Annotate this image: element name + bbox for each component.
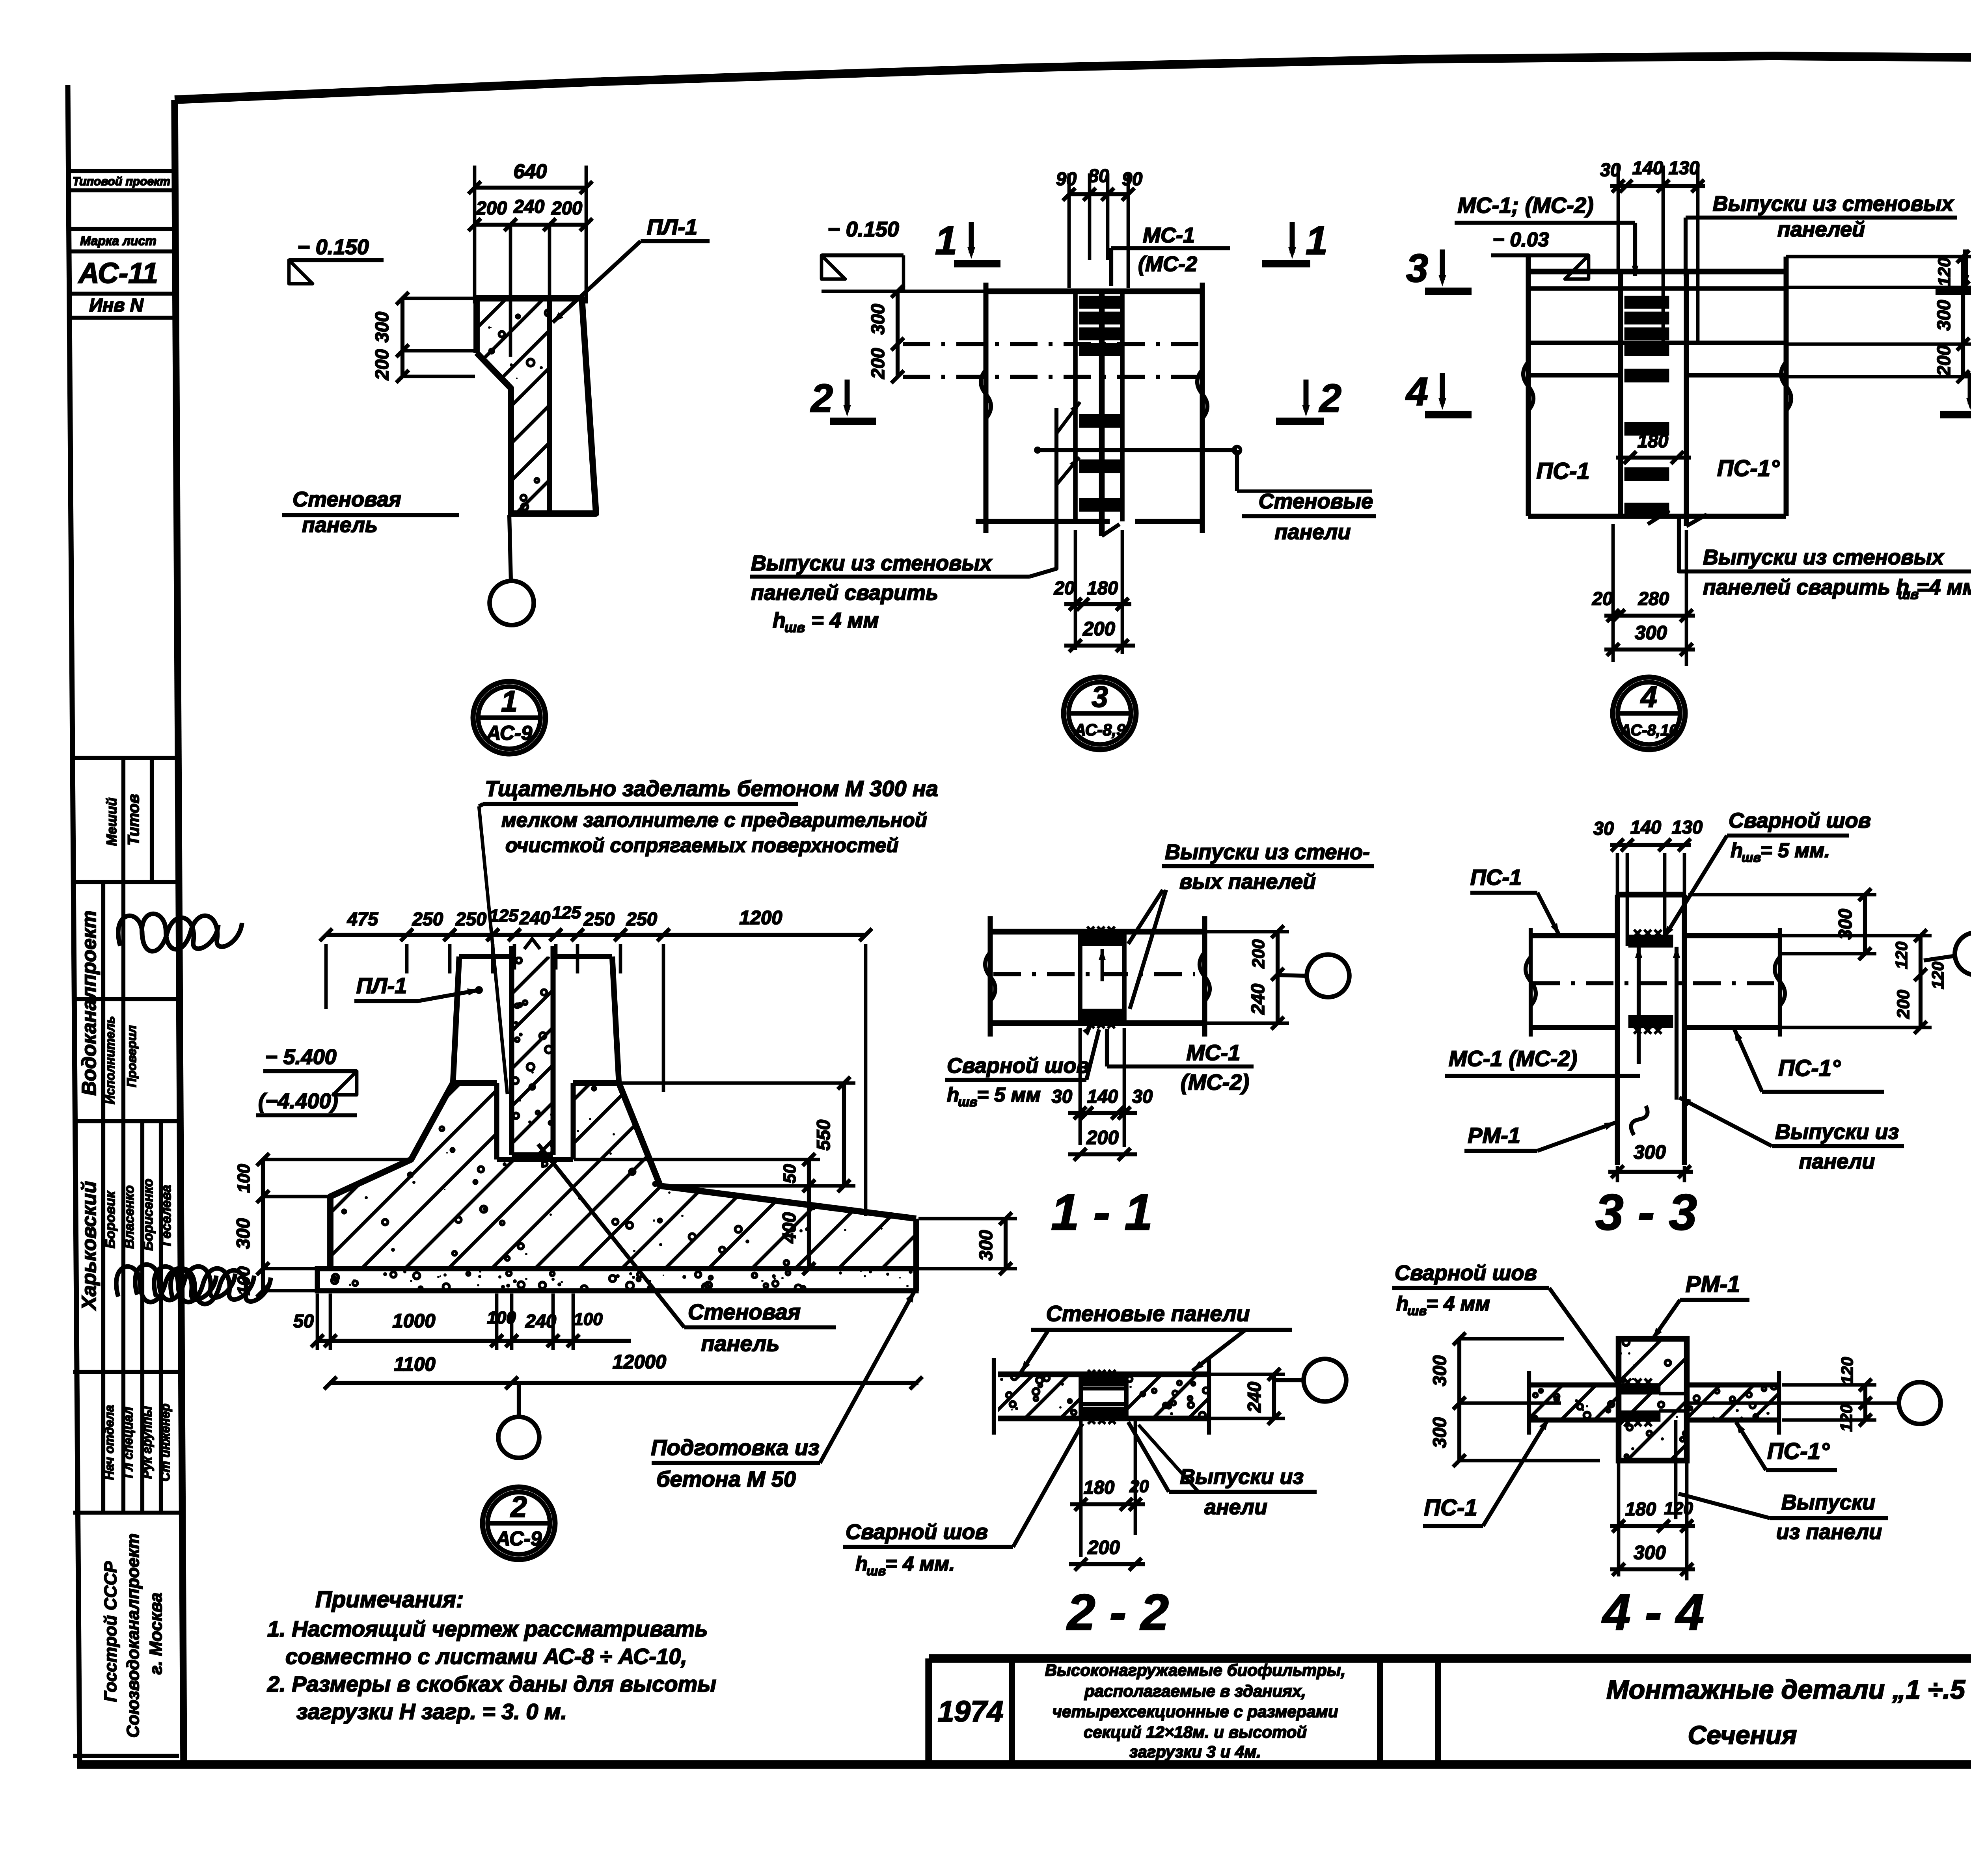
svg-text:Харьковский: Харьковский (78, 1181, 100, 1311)
svg-text:секций 12×18м. и высотой: секций 12×18м. и высотой (1084, 1723, 1307, 1741)
svg-text:Борисенко: Борисенко (141, 1179, 156, 1251)
svg-text:АС-9: АС-9 (495, 1527, 542, 1550)
section 4-4: column RM-1 (1619, 1339, 1687, 1461)
section 3-3: dim 300 bottom (1608, 1142, 1693, 1182)
section 3-3: dashed axis (1532, 981, 1778, 985)
svg-text:Меший: Меший (104, 798, 119, 846)
svg-text:h: h (947, 1083, 959, 1106)
svg-text:Марка лист: Марка лист (80, 234, 156, 248)
section 1-1: label Svarnoy shov (945, 1025, 1099, 1109)
detail 1: label PL-1 (553, 214, 710, 322)
svg-text:Сварной шов: Сварной шов (947, 1054, 1089, 1078)
svg-text:= 4 мм: = 4 мм (1426, 1292, 1490, 1315)
section 4-4: node circle (1899, 1382, 1941, 1424)
svg-text:4 - 4: 4 - 4 (1601, 1584, 1704, 1641)
detail 4: dim 180 (1616, 430, 1691, 464)
svg-text:200: 200 (371, 349, 392, 380)
svg-text:250: 250 (455, 908, 486, 929)
svg-text:130: 130 (1669, 157, 1699, 178)
svg-text:ПС-1°: ПС-1° (1767, 1439, 1830, 1464)
svg-text:Рук группы: Рук группы (140, 1406, 154, 1479)
section 3-3: dim 300 right (1688, 888, 1876, 960)
svg-text:шв: шв (1407, 1303, 1427, 1318)
svg-text:(МС-2): (МС-2) (1181, 1070, 1249, 1094)
svg-text:анели: анели (1204, 1495, 1267, 1519)
sheet outer sidebar line (68, 85, 80, 1764)
svg-text:Сечения: Сечения (1688, 1720, 1797, 1749)
svg-text:200: 200 (1894, 990, 1913, 1019)
section 4-4: label Vypuski iz paneli (1676, 1420, 1888, 1544)
title block frame (929, 1658, 1971, 1764)
svg-text:2: 2 (810, 376, 833, 421)
svg-text:30: 30 (1132, 1086, 1153, 1107)
section 3-3: left wall (1526, 928, 1617, 1037)
section 3-3: dims 120 120 200 right (1782, 929, 1947, 1034)
foundation: dims 100 300 100 left (233, 1153, 410, 1297)
foundation: pocket walls (497, 1083, 573, 1159)
svg-text:Типовой проект: Типовой проект (73, 175, 170, 188)
svg-text:30: 30 (1593, 818, 1614, 839)
detail 1: node circle (490, 581, 534, 625)
section 2-2: joint with plates (1081, 1370, 1126, 1424)
section 4-4: title (1601, 1584, 1704, 1641)
svg-text:ПС-1°: ПС-1° (1717, 456, 1780, 481)
svg-text:h: h (1731, 839, 1743, 862)
svg-text:200: 200 (867, 348, 888, 379)
svg-text:= 5 мм.: = 5 мм. (1760, 839, 1830, 862)
svg-text:Водоканалпроект: Водоканалпроект (78, 910, 100, 1096)
foundation: body outline (330, 1083, 916, 1291)
svg-text:180: 180 (1084, 1477, 1114, 1498)
svg-text:Проверил: Проверил (125, 1025, 139, 1087)
section 3-3: label RM-1 (1464, 1122, 1616, 1151)
svg-text:ПС-1: ПС-1 (1536, 458, 1589, 484)
svg-text:200: 200 (1933, 345, 1954, 376)
rotated text Soyuzvodokanalproekt (123, 1534, 143, 1738)
foundation: dim 550 (620, 1077, 855, 1192)
svg-text:120: 120 (1892, 942, 1911, 969)
detail 4: section mark 4 right (1940, 370, 1971, 415)
foundation: label Stenovaya panel (538, 1144, 836, 1356)
detail 3: wall panels outline (976, 283, 1207, 533)
svg-text:шв: шв (866, 1563, 886, 1578)
svg-text:шв: шв (784, 620, 805, 635)
svg-text:совместно с листами АС-8 ÷: совместно с листами АС-8 ÷ АС-10, (285, 1644, 687, 1669)
svg-text:(−4.400): (−4.400) (258, 1089, 338, 1113)
section 2-2: label Vypuski iz paneli (1128, 1422, 1317, 1519)
detail 3: dashed axis lines (903, 344, 1202, 377)
svg-text:4: 4 (1405, 370, 1428, 414)
detail 1: panel concrete hatch (469, 298, 552, 514)
svg-text:панель: панель (701, 1331, 779, 1356)
svg-text:120: 120 (1928, 962, 1947, 989)
section 2-2: dim 200 (1069, 1537, 1145, 1571)
svg-text:300: 300 (975, 1230, 996, 1261)
section 1-1: node circle (1278, 955, 1349, 997)
detail 3: dims 90 80 90 (1056, 165, 1142, 288)
svg-text:120: 120 (1664, 1499, 1693, 1518)
title name Montazhnye detali (1606, 1675, 1965, 1749)
svg-text:240: 240 (519, 907, 550, 928)
section 3-3: label PS-1a (1734, 1029, 1884, 1092)
detail 3: section mark 1 right (1262, 219, 1328, 264)
section 2-2: node circle (1274, 1359, 1346, 1401)
detail 3: section mark 1 left (935, 219, 1000, 264)
svg-text:300: 300 (1634, 1542, 1666, 1563)
rotated name Borisenko (141, 1179, 156, 1251)
svg-text:2. Размеры в скобках даны: 2. Размеры в скобках даны для высоты (267, 1671, 716, 1696)
section 4-4: dim 300 (1610, 1542, 1695, 1576)
section 3-3: label MS-1 (MS-2) (1445, 1046, 1640, 1076)
detail 4: detail number circle 4/AS-8,10 (1613, 677, 1685, 750)
svg-text:300: 300 (1933, 300, 1954, 331)
svg-text:загрузки 3 и 4м.: загрузки 3 и 4м. (1129, 1742, 1261, 1761)
detail 4: label PS-1a (1717, 456, 1780, 481)
svg-text:Сварной шов: Сварной шов (846, 1520, 988, 1544)
section 3-3: dims 30 140 130 (1593, 817, 1703, 946)
section 2-2: title (1066, 1584, 1169, 1641)
svg-text:200: 200 (1086, 1127, 1119, 1148)
detail 4: note Vypuski iz stenovykh paneley svarit (1648, 510, 1971, 602)
rotated label Nach otdela (102, 1405, 116, 1480)
label Tipovoy proekt (73, 175, 170, 188)
svg-text:240: 240 (1247, 984, 1268, 1015)
foundation: label Podgotovka iz betona M50 (651, 1291, 915, 1491)
svg-text:Подготовка из: Подготовка из (651, 1435, 819, 1460)
svg-text:загрузки Н загр. = 3. 0 м.: загрузки Н загр. = 3. 0 м. (296, 1699, 567, 1724)
detail 4: label PS-1 (1536, 458, 1589, 484)
svg-text:120: 120 (1838, 1357, 1856, 1385)
svg-text:180: 180 (1625, 1498, 1656, 1519)
svg-text:МС-1; (МС-2): МС-1; (МС-2) (1457, 193, 1593, 218)
svg-text:− 0.03: − 0.03 (1492, 228, 1549, 251)
svg-text:125: 125 (552, 903, 581, 922)
svg-text:300: 300 (233, 1218, 253, 1249)
svg-text:h: h (1396, 1292, 1408, 1315)
svg-text:200: 200 (551, 197, 582, 218)
notes: item 1 (267, 1616, 708, 1669)
svg-text:Сварной шов: Сварной шов (1729, 809, 1871, 832)
svg-text:180: 180 (1087, 577, 1118, 598)
svg-text:= 5 мм: = 5 мм (977, 1083, 1041, 1106)
title year 1974 (938, 1695, 1004, 1728)
foundation: top dimension row (320, 903, 872, 1216)
svg-text:Сварной шов: Сварной шов (1395, 1261, 1537, 1285)
svg-text:180: 180 (1638, 430, 1668, 451)
section 1-1: title (1051, 1184, 1153, 1241)
svg-text:Гл специал: Гл специал (121, 1407, 135, 1478)
detail 3: label MS-1 (MS-2 (1111, 223, 1230, 286)
section 2-2: label Svarnoy shov (843, 1424, 1082, 1578)
svg-text:h: h (855, 1552, 868, 1575)
detail 3: label Stenovye paneli (1034, 447, 1376, 544)
section 4-4: label RM-1 (1652, 1271, 1749, 1339)
svg-text:РМ-1: РМ-1 (1686, 1271, 1740, 1297)
frame bottom border (77, 1760, 1971, 1769)
detail 4: section mark 3 left (1406, 246, 1472, 291)
svg-text:250: 250 (583, 908, 615, 929)
foundation: bottom dim row 50 1000 100 240 100 (293, 1293, 631, 1350)
svg-text:h: h (773, 609, 786, 632)
section 3-3: label Svarnoy shov hshv=5mm (1664, 809, 1871, 937)
svg-text:3: 3 (1406, 246, 1428, 290)
foundation: label PL-1 (354, 973, 483, 1001)
svg-text:= 4 мм.: = 4 мм. (885, 1552, 955, 1575)
section 2-2: wall hatch left (954, 1374, 1105, 1418)
svg-text:100: 100 (574, 1310, 603, 1329)
svg-text:475: 475 (347, 908, 378, 929)
section 1-1: dim 200 (1068, 1127, 1137, 1161)
title description (1045, 1661, 1346, 1761)
svg-text:АС-11: АС-11 (78, 257, 158, 289)
svg-text:мелком заполнителе с предва: мелком заполнителе с предварительной (501, 809, 927, 831)
section 3-3: label PS-1 top (1470, 865, 1559, 935)
detail 3: section mark 2 right (1276, 376, 1341, 421)
section 3-3: node circle (1924, 932, 1971, 975)
svg-text:640: 640 (513, 160, 547, 182)
svg-text:ПС-1: ПС-1 (1424, 1495, 1477, 1521)
rotated label Ruk gruppy (140, 1406, 154, 1479)
frame left border (175, 100, 184, 1764)
svg-text:Выпуски из стеновых: Выпуски из стеновых (1713, 192, 1954, 216)
svg-text:1: 1 (935, 219, 957, 263)
svg-text:Стеновые: Стеновые (1259, 489, 1373, 513)
detail 3: section mark 2 left (810, 376, 876, 421)
svg-text:90: 90 (1122, 168, 1142, 189)
svg-text:200: 200 (1087, 1537, 1120, 1558)
rotated name Vlasenko (122, 1186, 137, 1249)
svg-text:Выпуски из: Выпуски из (1775, 1120, 1899, 1144)
svg-text:=4 мм: =4 мм (1917, 575, 1971, 599)
svg-text:= 4 мм: = 4 мм (811, 609, 879, 632)
svg-text:280: 280 (1638, 588, 1669, 609)
section 3-3: weld plates and bars (1630, 930, 1680, 1100)
svg-text:Примечания:: Примечания: (315, 1587, 464, 1612)
svg-text:300: 300 (1635, 622, 1667, 644)
svg-text:Власенко: Власенко (122, 1186, 137, 1249)
svg-text:50: 50 (293, 1310, 314, 1331)
svg-text:Боровик: Боровик (103, 1191, 118, 1249)
svg-text:панели: панели (1275, 520, 1351, 544)
section 2-2: wall band outline (994, 1358, 1209, 1435)
svg-text:12000: 12000 (613, 1351, 666, 1373)
svg-text:2: 2 (510, 1490, 527, 1523)
detail 1: dimension 640 (468, 160, 592, 303)
notes: Primechaniya (315, 1587, 464, 1612)
svg-text:90: 90 (1056, 168, 1077, 189)
svg-text:250: 250 (412, 908, 443, 929)
svg-text:1: 1 (501, 685, 518, 718)
svg-text:МС-1 (МС-2): МС-1 (МС-2) (1449, 1046, 1578, 1071)
svg-text:МС-1: МС-1 (1187, 1040, 1241, 1065)
svg-text:(МС-2: (МС-2 (1138, 252, 1197, 276)
detail 1: detail number circle 1/AS-9 (473, 681, 546, 754)
detail 1: label Stenovaya panel (282, 488, 459, 537)
svg-text:120: 120 (1935, 257, 1954, 287)
signatures executors (108, 872, 248, 988)
detail 4: section mark 4 left (1405, 370, 1472, 415)
svg-text:1000: 1000 (392, 1310, 435, 1332)
notes: item 2 (267, 1671, 716, 1724)
signatures names (106, 1223, 276, 1341)
svg-text:РМ-1: РМ-1 (1468, 1123, 1520, 1148)
svg-text:240: 240 (513, 196, 544, 217)
svg-text:4: 4 (1640, 680, 1657, 713)
label Marka list (80, 234, 156, 248)
svg-text:200: 200 (1249, 939, 1268, 969)
detail 4: level mark -0.03 (1491, 228, 1589, 279)
svg-text:шв: шв (1898, 587, 1919, 602)
svg-text:панели: панели (1799, 1150, 1875, 1173)
section 1-1: dims 30 140 30 (1052, 1028, 1153, 1147)
section 4-4: label PS-1a (1736, 1422, 1837, 1470)
rotated text g Moskva (146, 1593, 166, 1675)
rotated text Ispolnitel (103, 1016, 117, 1104)
svg-text:Союзводоканалпроект: Союзводоканалпроект (123, 1534, 143, 1738)
section 4-4: dims 180 120 (1610, 1462, 1695, 1580)
svg-text:располагаемые в зданиях,: располагаемые в зданиях, (1084, 1682, 1306, 1700)
foundation: PL-1 panel outline (453, 957, 619, 1083)
svg-text:ПЛ-1: ПЛ-1 (647, 214, 698, 239)
rotated name Borovik (103, 1191, 118, 1249)
svg-text:20: 20 (1054, 577, 1075, 598)
svg-text:200: 200 (1082, 618, 1115, 640)
section 1-1: dims 200 240 right (1206, 925, 1289, 1029)
svg-text:1: 1 (1306, 219, 1328, 263)
svg-text:300: 300 (1634, 1142, 1666, 1163)
detail 4: joint column (1621, 272, 1707, 526)
svg-text:г. Москва: г. Москва (146, 1593, 166, 1675)
svg-text:Высоконагружаемые биофильтры,: Высоконагружаемые биофильтры, (1045, 1661, 1346, 1679)
svg-text:20: 20 (1129, 1477, 1149, 1496)
svg-text:250: 250 (626, 908, 657, 929)
svg-text:3: 3 (1092, 680, 1108, 713)
section 4-4: left wall (1529, 1371, 1619, 1435)
section 2-2: wall hatch right (1082, 1374, 1233, 1418)
svg-text:Выпуски из стеновых: Выпуски из стеновых (751, 551, 993, 575)
foundation: prep slab (317, 1269, 916, 1292)
section 1-1: label Vypuski iz stenovykh paneley (1128, 840, 1374, 1009)
section 4-4: label PS-1 (1423, 1419, 1548, 1526)
svg-text:− 0.150: − 0.150 (297, 235, 369, 259)
svg-text:300: 300 (867, 304, 888, 335)
detail 3: note Vypuski iz stenovykh paneley svarit (750, 402, 1080, 635)
foundation: note M300 text (479, 776, 938, 1094)
svg-text:шв: шв (958, 1094, 977, 1109)
svg-text:Госстрой СССР: Госстрой СССР (101, 1561, 120, 1702)
svg-text:ПС-1: ПС-1 (1470, 865, 1522, 890)
foundation: detail number circle 2/AS-9 (483, 1487, 555, 1560)
svg-text:Инв N: Инв N (89, 294, 144, 315)
svg-text:20: 20 (1592, 588, 1613, 609)
section 3-3: title (1595, 1184, 1697, 1241)
svg-text:2: 2 (1319, 376, 1341, 421)
rotated text Vodokanalproekt (78, 910, 100, 1096)
svg-text:Тщательно заделать бетоном: Тщательно заделать бетоном М 300 на (485, 776, 938, 801)
svg-text:Нач отдела: Нач отдела (102, 1405, 116, 1480)
svg-text:240: 240 (1244, 1382, 1265, 1413)
svg-text:Стеновые панели: Стеновые панели (1046, 1301, 1250, 1326)
detail 3: level mark -0.150 (822, 218, 986, 291)
svg-text:ПС-1°: ПС-1° (1778, 1055, 1841, 1081)
detail 3: dims 300 200 left (867, 285, 904, 383)
detail 4: dims 120 300 200 right (1786, 250, 1971, 383)
sidebar rotated block gridlines (73, 758, 179, 1756)
sidebar stamp boxes (69, 171, 175, 318)
section 4-4: column hatch (1497, 1339, 1792, 1461)
section 4-4: wall hatches (1494, 1384, 1787, 1420)
svg-text:АС-8,9: АС-8,9 (1074, 720, 1126, 739)
detail 4: section mark 3 right (1936, 246, 1971, 291)
svg-text:400: 400 (779, 1212, 799, 1243)
foundation: bottom dim row 1100 12000 (324, 1351, 922, 1389)
rotated text Meshiy (104, 798, 119, 846)
svg-text:Выпуски из: Выпуски из (1180, 1465, 1304, 1489)
svg-text:− 0.150: − 0.150 (827, 218, 899, 241)
foundation: dim 300 right (918, 1212, 1017, 1275)
section 2-2: dim 240 right (1210, 1368, 1285, 1425)
svg-text:Стеновая: Стеновая (292, 488, 401, 511)
svg-text:панелей сварить: панелей сварить (751, 581, 938, 605)
detail 4: weld plates (1626, 298, 1667, 515)
svg-text:ПЛ-1: ПЛ-1 (356, 973, 407, 998)
svg-text:Выпуски из стено-: Выпуски из стено- (1165, 840, 1370, 864)
label Inv N (89, 294, 144, 315)
foundation: column concrete hatch (313, 957, 736, 1155)
detail 4: label Vypuski iz stenovykh paneley (1686, 192, 1957, 276)
svg-text:50: 50 (780, 1164, 799, 1183)
svg-text:панелей: панелей (1777, 218, 1865, 241)
rotated text Gosstroy SSSR (101, 1561, 120, 1702)
section 2-2: dims 180 20 (1070, 1421, 1149, 1557)
section 3-3: label Vypuski iz paneli (1679, 1098, 1904, 1173)
svg-text:550: 550 (813, 1120, 834, 1150)
section 2-2: label Stenovye paneli (1021, 1301, 1292, 1372)
section 4-4: dims 120 120 right (1782, 1357, 1876, 1432)
svg-text:2 - 2: 2 - 2 (1066, 1584, 1169, 1641)
svg-text:120: 120 (1837, 1404, 1855, 1432)
svg-text:300: 300 (371, 312, 392, 342)
detail 4: wall outline (1523, 257, 1791, 516)
foundation: body concrete hatch (145, 1083, 1067, 1269)
svg-text:АС-8,10: АС-8,10 (1620, 722, 1678, 739)
foundation: dims 50 400 (574, 1153, 820, 1275)
svg-text:очисткой сопрягаемых поверхн: очисткой сопрягаемых поверхностей (505, 834, 898, 856)
detail 3: dim 200 bottom (1064, 618, 1135, 652)
svg-text:1. Настоящий чертеж рассмат: 1. Настоящий чертеж рассматривать (267, 1616, 708, 1641)
detail 3: detail number circle 3/AS-8,9 (1064, 677, 1136, 750)
section 4-4: dims 300 300 left (1429, 1333, 1600, 1467)
svg-text:вых панелей: вых панелей (1179, 870, 1316, 893)
detail 4: label MS-1; (MS-2) (1455, 193, 1639, 276)
svg-text:30: 30 (1052, 1086, 1072, 1107)
detail 4: dims 20 280 bottom (1592, 524, 1695, 666)
svg-text:АС-9: АС-9 (486, 722, 533, 744)
svg-text:300: 300 (1429, 1355, 1450, 1386)
rotated label St inzhener (158, 1403, 172, 1481)
svg-text:из панели: из панели (1776, 1520, 1882, 1544)
svg-text:300: 300 (1429, 1417, 1450, 1448)
rotated label Gl special (121, 1407, 135, 1478)
svg-text:1200: 1200 (739, 907, 782, 929)
section 4-4: label Svarnoy shov (1392, 1261, 1619, 1384)
svg-text:− 5.400: − 5.400 (265, 1045, 337, 1069)
rotated signature Titov (125, 794, 142, 846)
foundation: level -5.400 (-4.400) (256, 1045, 357, 1115)
section 1-1: wall outline (985, 916, 1210, 1037)
svg-text:1 - 1: 1 - 1 (1051, 1184, 1153, 1241)
svg-text:200: 200 (476, 197, 507, 218)
